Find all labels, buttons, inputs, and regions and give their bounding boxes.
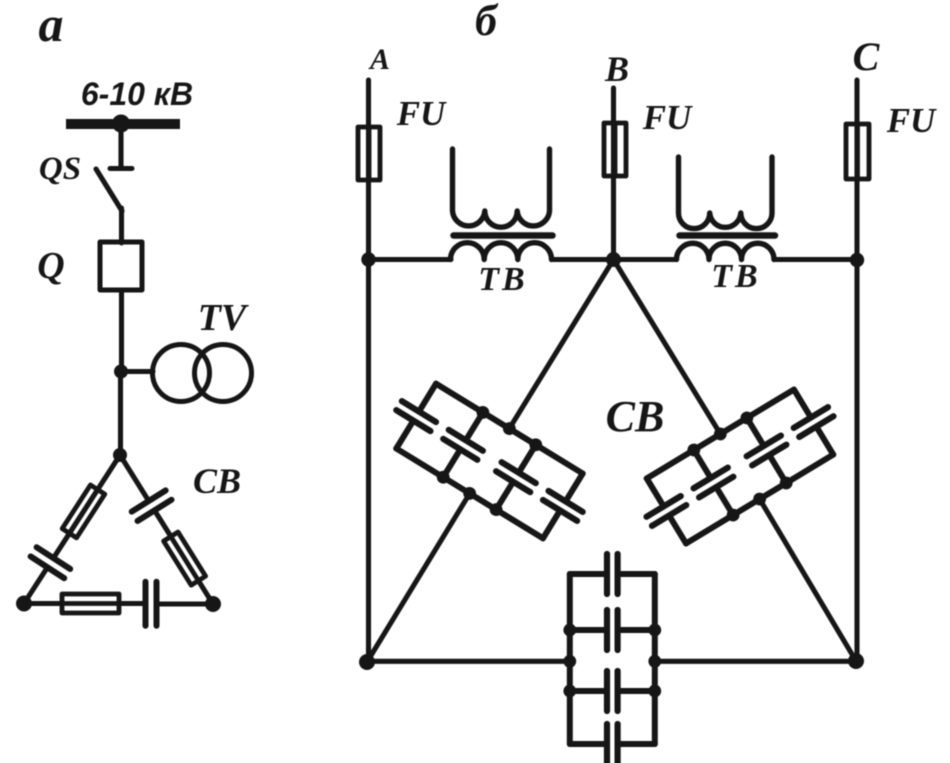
current transformer TB1 core	[454, 232, 553, 239]
svg-text:FU: FU	[396, 94, 447, 133]
bus wire B to TB2	[614, 257, 677, 262]
circuit breaker Q	[100, 242, 142, 290]
node: bus junction phase A	[361, 252, 375, 266]
node: bus junction phase C	[850, 253, 864, 267]
capacitor bank CB, phase B-C arm	[626, 374, 853, 560]
svg-text:TB: TB	[478, 261, 527, 298]
node: bus junction phase B	[606, 252, 621, 267]
wire delta left side (apex to fuse)	[68, 455, 120, 535]
svg-text:a: a	[39, 0, 64, 52]
phase A lead-in wire	[366, 80, 371, 662]
bus wire A to TB1	[369, 257, 452, 262]
phase B lead-in wire	[611, 88, 616, 260]
svg-text:FU: FU	[642, 98, 693, 137]
svg-text:CB: CB	[606, 392, 665, 441]
disconnector QS fixed contact	[110, 166, 132, 171]
wire delta bottom right segment	[655, 659, 856, 664]
wire left bank to bottom-left corner	[367, 493, 470, 662]
svg-text:A: A	[368, 43, 390, 76]
svg-text:TB: TB	[711, 258, 760, 295]
current transformer TB2 core	[680, 232, 776, 239]
bus wire TB2 to C	[774, 257, 857, 262]
wire delta right side (fuse to corner)	[198, 580, 213, 604]
voltage transformer TV	[153, 345, 210, 402]
capacitor bank CB, phase C-A arm	[563, 554, 661, 763]
svg-text:TV: TV	[198, 297, 249, 339]
node: TV tap junction	[114, 365, 128, 379]
wire delta right side (cap to fuse)	[155, 512, 171, 537]
wire tap to TV	[121, 369, 153, 374]
svg-text:Q: Q	[37, 245, 64, 287]
node: delta bottom-left corner	[16, 596, 32, 612]
wire bus to disconnector	[118, 124, 123, 168]
fuse FU phase C	[846, 124, 869, 179]
wire diagonal B to right bank	[614, 260, 721, 435]
svg-text:FU: FU	[886, 101, 937, 140]
capacitor, delta right side	[132, 490, 172, 521]
wire delta bottom left segment	[367, 659, 570, 664]
svg-text:б: б	[475, 0, 499, 45]
capacitor bank CB, phase A-B arm	[376, 368, 603, 554]
capacitor, delta bottom side	[146, 582, 157, 626]
svg-text:C: C	[853, 34, 881, 79]
wire delta right side (apex to cap)	[120, 455, 148, 500]
current transformer TB2 secondary winding	[679, 157, 773, 229]
wire delta bottom (corner to fuse)	[24, 601, 63, 606]
capacitor, delta left side	[31, 547, 71, 578]
fuse FU phase A	[358, 127, 380, 180]
svg-text:6-10 кВ: 6-10 кВ	[81, 76, 193, 112]
wire delta left side (cap to corner)	[24, 569, 47, 604]
fuse, delta right side	[164, 532, 206, 585]
fuse, delta left side	[62, 485, 105, 538]
disconnector QS blade	[96, 169, 122, 211]
wire delta bottom (fuse to cap)	[119, 601, 143, 606]
bus wire TB1 to B	[552, 257, 614, 262]
fuse, delta bottom side	[62, 594, 119, 613]
node: bottom-right delta corner	[848, 653, 864, 669]
current transformer TB2 primary winding	[677, 243, 775, 259]
node: delta bottom-right corner	[205, 596, 221, 612]
phase C lead-in wire	[854, 80, 859, 661]
svg-text:CB: CB	[193, 461, 241, 501]
svg-text:B: B	[604, 49, 629, 89]
current transformer TB1 primary winding	[451, 243, 552, 260]
wire tap to delta apex	[118, 372, 123, 456]
node: delta apex	[113, 448, 127, 462]
busbar 6-10 kV	[66, 119, 180, 129]
node: bottom-left delta corner	[359, 654, 375, 670]
wire right bank to bottom-right corner	[760, 499, 856, 661]
wire delta bottom (cap to corner)	[160, 601, 214, 606]
fuse FU phase B	[604, 123, 626, 176]
wire diagonal B to left bank	[509, 260, 613, 429]
svg-text:QS: QS	[39, 151, 81, 187]
wire QS to breaker Q	[119, 208, 124, 243]
node: bus tap junction	[112, 115, 130, 133]
current transformer TB1 secondary winding	[453, 149, 550, 227]
wire breaker to TV tap	[119, 290, 124, 372]
